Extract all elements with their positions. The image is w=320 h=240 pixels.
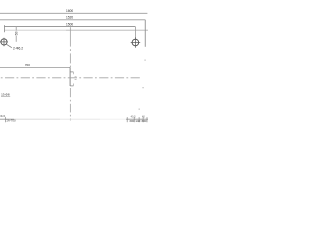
svg-text:13-Φ8: 13-Φ8 (1, 92, 10, 96)
svg-text:50: 50 (15, 31, 19, 35)
svg-text:300 140 300: 300 140 300 (129, 119, 146, 123)
svg-text:1500: 1500 (66, 22, 73, 26)
svg-text:40.5: 40.5 (131, 116, 136, 119)
svg-text:700: 700 (25, 63, 30, 67)
svg-text:Φ24: Φ24 (0, 114, 6, 118)
svg-text:1520: 1520 (66, 16, 73, 20)
svg-text:2-Φ6.2: 2-Φ6.2 (13, 47, 23, 51)
svg-text:1600: 1600 (66, 9, 73, 13)
svg-text:1A-700: 1A-700 (6, 119, 16, 123)
